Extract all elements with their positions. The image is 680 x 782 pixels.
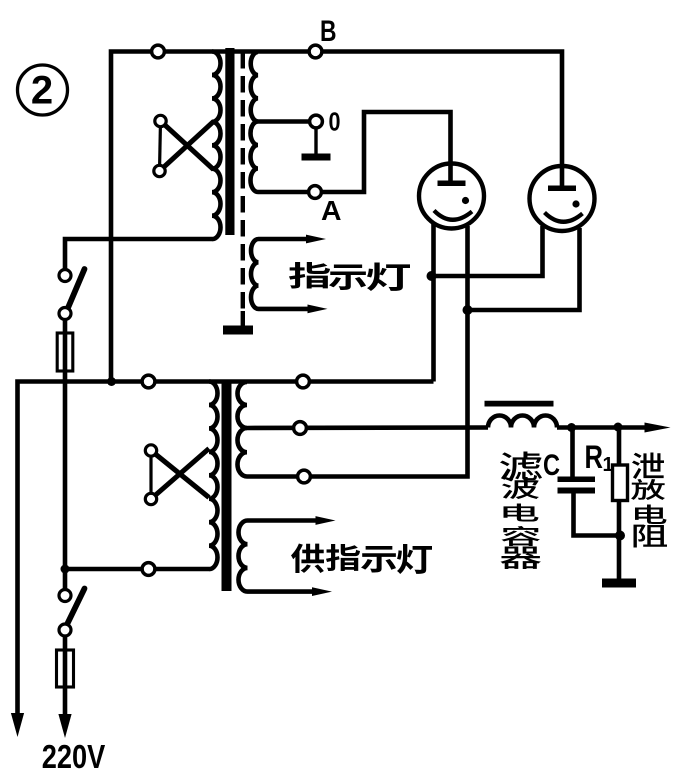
svg-text:B: B <box>320 15 337 48</box>
svg-text:R: R <box>585 439 604 475</box>
svg-text:0: 0 <box>329 107 341 137</box>
svg-text:2: 2 <box>31 69 53 113</box>
svg-text:220V: 220V <box>42 738 106 775</box>
svg-text:1: 1 <box>603 454 614 476</box>
svg-text:C: C <box>543 449 560 482</box>
svg-text:A: A <box>321 195 342 226</box>
